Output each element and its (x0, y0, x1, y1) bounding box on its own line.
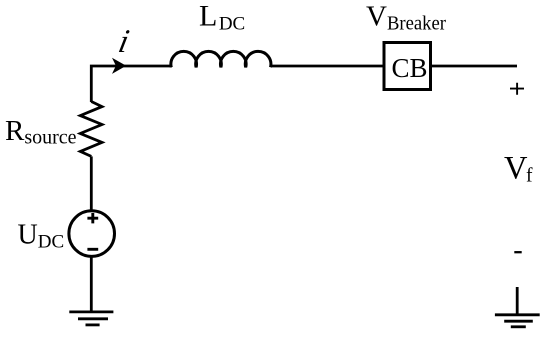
wire: inductor to CB box (271, 65, 383, 68)
ground (left) (69, 312, 113, 325)
svg-text:VBreaker: VBreaker (366, 1, 446, 35)
resistor R_source (80, 102, 102, 157)
wire: resistor to source (90, 156, 93, 210)
svg-text:LDC: LDC (199, 0, 245, 35)
svg-text:CB: CB (392, 53, 428, 83)
plus mark in source (87, 213, 98, 223)
svg-text:Vf: Vf (504, 151, 533, 187)
svg-text:UDC: UDC (18, 219, 65, 252)
circuit breaker CB box (384, 43, 431, 90)
plus terminal mark (510, 83, 524, 95)
wire: CB box to right terminal (432, 65, 517, 68)
inductor L_DC (171, 51, 271, 67)
current arrow i (112, 58, 126, 74)
svg-text:Rsource: Rsource (5, 115, 77, 149)
wire: left corner vertical+horizontal to inductor (91, 66, 172, 102)
voltage source U_DC circle (69, 211, 115, 257)
minus terminal mark (514, 251, 521, 253)
svg-text:i: i (115, 23, 132, 60)
minus mark in source (87, 248, 98, 251)
ground (right) (495, 287, 540, 327)
wire: source to ground (90, 256, 93, 312)
